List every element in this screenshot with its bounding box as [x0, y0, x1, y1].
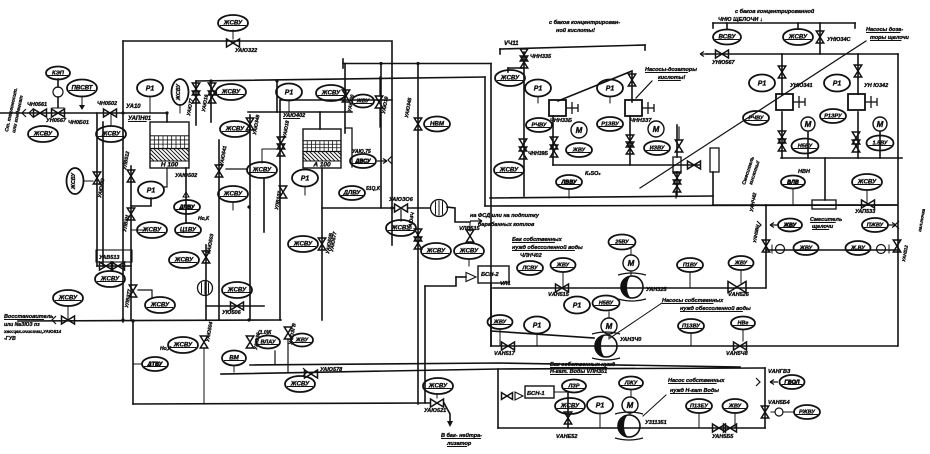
svg-text:ЧНН33Б: ЧНН33Б: [550, 118, 572, 124]
valve VAN515: [556, 284, 569, 292]
wire big left loop: [123, 41, 392, 245]
svg-text:КЭП: КЭП: [52, 71, 65, 77]
svg-text:ЖВУ: ЖВУ: [295, 338, 310, 344]
label UAYu502 tank1: [175, 173, 197, 179]
dosing pump alk1: [776, 94, 805, 110]
instrument P1 762: [749, 75, 775, 92]
wire line y346: [491, 345, 897, 347]
label UAYu521: [424, 408, 446, 414]
valve UAP533: [862, 200, 875, 208]
wire vert x568 bottom: [567, 392, 569, 428]
valve UAYu322: [227, 39, 240, 47]
instrument ZhSVU alk: [783, 29, 813, 45]
valve 131: [127, 208, 134, 220]
instrument 15VU alk2: [867, 136, 894, 151]
label rot 252: [252, 114, 261, 135]
instrument P1 538: [525, 80, 551, 97]
svg-text:P1: P1: [573, 303, 582, 310]
label rot 206: [206, 233, 215, 254]
svg-text:P1: P1: [606, 86, 615, 93]
label UNYu567: [712, 60, 736, 66]
label rot x219: [219, 145, 228, 166]
label ChN0561: [27, 102, 47, 108]
label UAYu77 rot: [186, 98, 195, 116]
label VAN548: [726, 351, 749, 357]
instrument VM: [222, 351, 246, 366]
svg-text:(1.0)К: (1.0)К: [258, 330, 272, 336]
svg-text:VАНЕ52: VАНЕ52: [556, 434, 577, 440]
wire vert x897 right: [897, 54, 899, 346]
svg-text:ГВОЛ: ГВОЛ: [784, 380, 799, 386]
instrument LZR: [562, 380, 586, 393]
instrument GVOL dark: [780, 375, 805, 389]
check valve bsn1: [515, 392, 523, 400]
svg-text:УАВ513: УАВ513: [99, 255, 119, 261]
svg-text:P1: P1: [533, 323, 542, 330]
svg-text:УЮ506: УЮ506: [222, 310, 242, 316]
wire mid long lower: [221, 368, 765, 374]
svg-text:УАЮ502: УАЮ502: [175, 173, 197, 179]
strainer circle hx1: [431, 200, 448, 217]
svg-text:Н5ВУ: Н5ВУ: [798, 144, 814, 150]
svg-text:P1: P1: [758, 81, 767, 88]
instrument ZhVU small: [352, 95, 374, 108]
node feed1-loop junction: [121, 111, 124, 114]
svg-text:БСН-1: БСН-1: [527, 391, 545, 397]
svg-text:А 100: А 100: [312, 162, 331, 169]
svg-text:ЖСВУ: ЖСВУ: [174, 257, 194, 264]
instrument ZhSVU 331: [316, 85, 346, 101]
label VANE52: [556, 434, 577, 440]
svg-text:П1ЗВУ: П1ЗВУ: [682, 324, 701, 330]
instrument ZhSVU 233: [218, 186, 248, 202]
svg-text:ЛЖУ: ЛЖУ: [624, 381, 639, 387]
wire acid valve branch: [523, 52, 525, 196]
valve VAN517: [502, 342, 515, 350]
wire p2 suction: [491, 331, 594, 338]
svg-text:УА10: УА10: [126, 104, 141, 110]
wire vab513 row: [97, 265, 131, 267]
svg-text:P1: P1: [534, 86, 543, 93]
wire long line y206: [485, 205, 896, 206]
svg-text:ЖСВУ: ЖСВУ: [459, 248, 479, 255]
instrument P1 537: [524, 317, 550, 334]
instrument ZhSVU 264: [247, 162, 277, 178]
tank A100: [303, 129, 341, 169]
label st teplonositel: [4, 87, 19, 132]
valve 250-345: [246, 336, 253, 348]
svg-text:ЧН0561: ЧН0561: [27, 102, 47, 108]
actuator circle: [53, 87, 63, 97]
instrument P1 837: [824, 75, 850, 92]
valve 131-176: [127, 170, 134, 182]
svg-text:Н 100: Н 100: [161, 162, 179, 169]
svg-text:Насосы собственных: Насосы собственных: [662, 297, 724, 304]
svg-text:УНЮ341: УНЮ341: [790, 83, 813, 89]
svg-text:VЛ1: VЛ1: [500, 281, 511, 287]
svg-text:УН Ю342: УН Ю342: [864, 83, 888, 89]
instrument P1 600: [587, 397, 613, 414]
label rot 133-291: [124, 289, 133, 309]
label bak sobstv nuzhd: [512, 236, 563, 243]
tank H100: [150, 122, 189, 169]
instrument P1 tank2: [292, 170, 318, 187]
svg-text:ЖСВУ: ЖСВУ: [58, 295, 78, 302]
label ULN325: [646, 287, 667, 293]
svg-text:барабанных котлов: барабанных котлов: [478, 221, 535, 228]
svg-text:25ВУ: 25ВУ: [614, 240, 630, 246]
instrument R1ZVU acid: [597, 117, 623, 131]
instrument RChVU alk2: [820, 109, 846, 123]
svg-text:ЖСВУ: ЖСВУ: [71, 172, 77, 191]
valve pair strainer bottom: [673, 172, 680, 184]
valve ChN0502: [104, 109, 117, 117]
wire vert x281: [279, 100, 281, 320]
label rot UANCh2: [749, 192, 758, 212]
svg-text:ЖСВУ: ЖСВУ: [290, 381, 310, 388]
sample circle 779-412: [775, 408, 783, 416]
valve 765-412: [761, 406, 768, 418]
wire tank2 feed line y100: [281, 99, 392, 101]
label s bakov shchelochi: [735, 8, 815, 15]
label rot 283: [274, 191, 283, 211]
svg-text:ЖСВУ: ЖСВУ: [560, 403, 580, 410]
label UAP533: [855, 209, 875, 215]
svg-text:НВН: НВН: [798, 169, 811, 175]
instrument NVM: [424, 117, 450, 132]
valve acid diag top: [628, 74, 635, 86]
instrument ZhSVU acid: [495, 70, 525, 86]
svg-text:ЖСВУ: ЖСВУ: [100, 276, 120, 283]
wire vert x345: [344, 64, 346, 134]
wire acid pump1 feed: [552, 116, 554, 165]
valve W0506: [231, 302, 244, 310]
svg-text:ЖСВУ: ЖСВУ: [499, 167, 519, 174]
svg-text:ЛСВУ: ЛСВУ: [521, 266, 538, 272]
label rot 346: [347, 94, 356, 112]
instrument P1 292: [276, 84, 302, 101]
valve VAN548: [734, 342, 747, 350]
valve pair ChNN335: [520, 49, 527, 61]
svg-text:ЖВУ: ЖВУ: [783, 223, 798, 229]
svg-text:В бак- нейтра-: В бак- нейтра-: [441, 432, 482, 439]
valve 897-246: [893, 240, 900, 252]
wire tank2 inlet y112: [248, 111, 352, 113]
svg-text:нужд обессоленной воды: нужд обессоленной воды: [512, 244, 583, 251]
instrument ZhVU dark 790: [778, 219, 802, 232]
wire bottom line y404: [133, 403, 425, 404]
instrument ZhSVU topline: [218, 15, 248, 31]
label UAYu76 rot: [201, 94, 210, 112]
svg-text:ЧНН3З7: ЧНН3З7: [630, 118, 652, 124]
label VAN517: [494, 351, 516, 357]
svg-text:РЧВУ: РЧВУ: [532, 123, 548, 129]
label VANGVZ: [768, 369, 791, 375]
svg-text:или NaЗЮЗ пз: или NaЗЮЗ пз: [4, 322, 40, 328]
svg-text:ДПВУ: ДПВУ: [178, 205, 196, 211]
valve ChNYu54S: [816, 31, 823, 43]
mixer rect2: [710, 148, 719, 172]
wire strainer verts: [676, 125, 678, 157]
svg-text:P1: P1: [301, 176, 310, 183]
dosing pump alk2: [848, 94, 877, 110]
wire acid mixer line y165: [553, 164, 700, 166]
instrument ZhSVU vertical: [172, 79, 189, 105]
svg-text:ВЛВ: ВЛВ: [787, 180, 799, 186]
label UA10: [126, 104, 141, 110]
instrument ZhSVU 867: [852, 174, 882, 190]
wire top line y77: [196, 77, 485, 81]
svg-text:РЧВУ: РЧВУ: [749, 116, 765, 122]
svg-text:П1ВУ: П1ВУ: [683, 263, 699, 269]
svg-text:ПВСВТ: ПВСВТ: [71, 85, 93, 92]
svg-text:ЖСВУ: ЖСВУ: [223, 20, 243, 27]
wire alkali mixer line y205: [713, 204, 897, 206]
node feed2 junctions: [121, 318, 124, 321]
instrument P1 577: [564, 297, 590, 314]
wire callout diag: [610, 303, 662, 338]
valve VLV515: [466, 230, 473, 242]
label ChNN337: [630, 118, 652, 124]
label rot 288: [288, 323, 298, 346]
wire vert x219: [218, 140, 220, 320]
valve 133-291: [129, 285, 136, 297]
label UAN5B5: [712, 434, 734, 440]
wire long diagonal callout: [640, 41, 866, 188]
wire vert x133: [132, 320, 134, 404]
svg-text:НВг: НВг: [738, 321, 749, 327]
svg-text:ной кислоты!: ной кислоты!: [556, 27, 595, 34]
svg-text:VАН517: VАН517: [494, 351, 516, 357]
svg-text:ДТВУ: ДТВУ: [147, 362, 164, 368]
label bak sobstv H: [550, 361, 616, 368]
instrument ZhSVU 402: [386, 220, 416, 236]
instrument ZhSVU 300-382: [285, 376, 315, 392]
instrument ZhSVU 237: [222, 282, 252, 298]
wire vert x97: [96, 113, 98, 266]
instrument LZhU: [619, 377, 643, 390]
svg-text:УНЮ34С: УНЮ34С: [827, 37, 852, 43]
svg-text:ЧНЮ ЩЕЛОЧИ ↓: ЧНЮ ЩЕЛОЧИ ↓: [718, 17, 763, 23]
valve UAYu77: [192, 83, 199, 95]
label ULN340: [620, 337, 641, 343]
label UAYu306: [389, 197, 414, 203]
svg-text:ЧН0502: ЧН0502: [97, 101, 117, 107]
instrument LVVU dark: [556, 175, 582, 189]
label ChNN335: [530, 54, 552, 60]
label rot 281: [282, 120, 291, 138]
valve VAN526: [728, 281, 746, 292]
wire vert x418 long: [417, 64, 419, 405]
instrument VSVU: [713, 30, 741, 45]
instrument IZVU: [644, 141, 670, 155]
instrument ZhSVU vert left: [67, 168, 84, 194]
svg-text:ЖСВУ: ЖСВУ: [150, 302, 170, 309]
svg-text:К₂SO₄: К₂SO₄: [585, 171, 601, 177]
valve UNYu567: [716, 50, 729, 58]
instrument VLAU: [256, 336, 280, 349]
svg-text:ЖВУ: ЖВУ: [734, 261, 749, 267]
instrument ZhSVU 231: [216, 84, 246, 100]
svg-text:ЖСВУ: ЖСВУ: [426, 248, 446, 255]
instrument ZhSVU 184: [169, 252, 199, 268]
mixer strainer rect1: [673, 157, 681, 173]
motor M1: [623, 255, 639, 271]
valve pair x418: [414, 229, 421, 241]
svg-text:НВМ: НВМ: [430, 121, 445, 128]
valve x219: [215, 165, 222, 177]
svg-text:нужд обессоленной воды: нужд обессоленной воды: [680, 305, 751, 312]
svg-text:УАП533: УАП533: [855, 209, 875, 215]
pump ULN325: [618, 273, 646, 301]
wire vert x713: [712, 172, 714, 205]
valve 858-141: [852, 132, 859, 144]
svg-text:ЛЗР: ЛЗР: [568, 384, 580, 390]
label W0506: [222, 310, 242, 316]
wire vert x211: [210, 81, 212, 122]
label UAYu578: [320, 367, 343, 373]
wire vert x766: [765, 205, 767, 288]
instrument DVSU dark: [350, 154, 376, 168]
svg-text:P1: P1: [147, 188, 156, 195]
svg-text:хво:цех.очистки,УАЮ514: хво:цех.очистки,УАЮ514: [3, 329, 62, 334]
svg-text:Ж.ВУ: Ж.ВУ: [850, 246, 866, 252]
svg-text:ЖСВУ: ЖСВУ: [788, 34, 808, 41]
pump U311351: [615, 412, 643, 440]
instrument P1 tank1: [137, 80, 163, 97]
wire acid diag: [558, 71, 632, 102]
instrument RChVU alk1: [743, 111, 769, 125]
label rot 333: [329, 231, 338, 252]
instrument ZhSVU 303-240: [288, 236, 318, 252]
label nasosy shchelochi: [866, 27, 903, 33]
svg-text:ЖСВУ: ЖСВУ: [293, 241, 313, 248]
wire valve219 to ell: [226, 168, 247, 170]
valve 206-257: [202, 251, 209, 263]
svg-text:VАН5Б4: VАН5Б4: [768, 400, 790, 406]
wire alkali pump feeds: [781, 54, 783, 95]
label UAYuN02: [283, 113, 305, 119]
svg-text:Но,К: Но,К: [198, 216, 210, 222]
dosing pump acid1: [549, 100, 578, 116]
label ChN0B01: [68, 120, 89, 126]
instrument P1 149: [138, 182, 164, 199]
wire alkali mixer stub: [824, 158, 826, 200]
valve 320-243: [318, 238, 325, 250]
instrument N5VU alk1: [792, 139, 819, 154]
wire vert x250: [249, 115, 251, 320]
valve feed2: [62, 316, 75, 324]
svg-text:с баков концентрирован-: с баков концентрирован-: [549, 19, 620, 26]
wire bsn2 drain: [456, 276, 466, 278]
svg-text:ЛВВУ: ЛВВУ: [560, 180, 577, 186]
svg-text:ВМ: ВМ: [229, 355, 239, 362]
label rot ULV512: [122, 151, 131, 171]
svg-text:УАЮ521: УАЮ521: [424, 408, 446, 414]
valve 418t: [414, 118, 421, 130]
valve ChN0561: [34, 109, 47, 117]
svg-text:ЧН0Б01: ЧН0Б01: [68, 120, 89, 126]
wire bottom sect left vert: [497, 369, 499, 428]
svg-text:М: М: [627, 401, 634, 410]
instrument ZhSVU 436: [421, 243, 451, 259]
label rot 250: [253, 332, 262, 350]
instrument RZhVU: [794, 405, 820, 419]
svg-text:VАН515: VАН515: [548, 292, 570, 298]
valve pair VAB row: [100, 262, 113, 270]
node y63 junctions: [379, 62, 382, 65]
label VL1: [500, 281, 511, 287]
label ChNN39B: [528, 151, 548, 157]
svg-text:P1: P1: [285, 90, 294, 97]
valve 347: [342, 90, 349, 102]
svg-text:VАНГВЗ: VАНГВЗ: [768, 369, 791, 375]
svg-text:У311351: У311351: [645, 420, 667, 426]
tank BSN-2: [478, 266, 509, 283]
pump ULN340: [592, 332, 620, 360]
label na FSD: [470, 213, 540, 219]
svg-text:М: М: [877, 120, 884, 129]
instrument ZhVU 500: [488, 315, 513, 329]
label nasosy sobstv: [662, 297, 724, 304]
label rot right edge: [917, 208, 926, 232]
instrument DTVU dark: [142, 357, 168, 371]
valve pair 281: [277, 137, 284, 149]
wire vert x765 bottom: [764, 368, 766, 428]
wire feed2 line y320: [18, 320, 281, 321]
instrument ZhSVU feed1: [28, 126, 58, 142]
instrument ZhVU 735: [723, 399, 748, 413]
svg-text:РЖВУ: РЖВУ: [799, 410, 816, 416]
instrument RChVU acid: [526, 118, 552, 132]
svg-text:УАН325: УАН325: [646, 287, 667, 293]
label rot 380: [381, 96, 390, 114]
instrument PZhVU: [862, 218, 888, 232]
sample circle 881: [877, 245, 886, 254]
wire acid pump2 feed: [629, 116, 631, 165]
svg-text:М: М: [576, 126, 583, 135]
svg-text:ЖСВУ: ЖСВУ: [176, 83, 182, 102]
valve 766-246: [762, 240, 769, 252]
label v bak neytralizator: [441, 432, 482, 439]
mixer alkali rect: [812, 200, 836, 209]
svg-text:ВСВУ: ВСВУ: [718, 34, 736, 41]
motor M acid1: [571, 122, 587, 138]
wire top line y63: [343, 63, 491, 65]
svg-text:УАЮЗО6: УАЮЗО6: [389, 197, 414, 203]
instrument ZhSVU 244: [220, 121, 250, 137]
valve UAN5B5: [713, 424, 726, 432]
motor M2: [601, 318, 617, 334]
instrument P1ZVU 691: [678, 319, 704, 333]
valve 782-72: [778, 66, 785, 78]
wire alkali pump frame: [781, 112, 783, 158]
instrument ZhVU 741: [729, 256, 754, 270]
svg-text:УАН5Б5: УАН5Б5: [712, 434, 734, 440]
label ChNYu54S: [827, 37, 852, 43]
svg-text:М: М: [606, 322, 613, 331]
instrument 1VU: [175, 223, 201, 237]
svg-text:ЖВУ: ЖВУ: [728, 404, 743, 410]
svg-text:на ФСД или на подпитку: на ФСД или на подпитку: [470, 213, 540, 219]
valve UN0567 actuated: [52, 109, 65, 117]
svg-text:ЖСВУ: ЖСВУ: [223, 191, 243, 198]
valve 283-192: [279, 186, 286, 198]
svg-text:ЖВУ: ЖВУ: [799, 246, 814, 252]
instrument ZhVU 806: [794, 241, 819, 255]
label UNYu342: [864, 83, 888, 89]
label UAYu322: [235, 48, 257, 54]
